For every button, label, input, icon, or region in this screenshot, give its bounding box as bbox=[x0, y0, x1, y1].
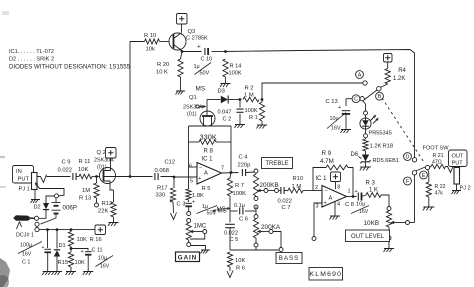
svg-text:C 11: C 11 bbox=[92, 248, 103, 254]
svg-text:C12: C12 bbox=[165, 160, 176, 166]
junction Q3 emitter bbox=[181, 50, 184, 53]
junction op2 out bbox=[352, 195, 355, 198]
svg-text:C 8: C 8 bbox=[345, 202, 354, 208]
svg-text:TREBLE: TREBLE bbox=[265, 161, 288, 167]
svg-text:0.022: 0.022 bbox=[224, 231, 238, 237]
capacitor C9 bbox=[72, 173, 74, 180]
junction D3 out bbox=[239, 98, 242, 101]
capacitor C3 bbox=[188, 200, 190, 202]
svg-text:+: + bbox=[42, 245, 45, 251]
wire pin4 ground bbox=[334, 202, 336, 216]
scan mark top left bbox=[2, 11, 9, 15]
svg-text:100K: 100K bbox=[245, 108, 258, 114]
node F bbox=[404, 177, 412, 185]
wire Q3 base bbox=[160, 41, 170, 43]
svg-text:R12: R12 bbox=[102, 201, 113, 207]
terminal arrow below R6 bbox=[229, 267, 231, 271]
svg-text:R 13: R 13 bbox=[79, 196, 91, 202]
resistor R6 bbox=[227, 252, 232, 267]
contact battery top bbox=[55, 194, 59, 198]
resistor R17 330K bbox=[173, 177, 175, 188]
wire contact F to out level wiper bbox=[414, 175, 416, 223]
svg-text:PUT: PUT bbox=[18, 177, 30, 183]
wire Q3 emitter to C10 bbox=[182, 51, 202, 53]
junction R17 bbox=[173, 176, 176, 179]
terminal bass top bbox=[254, 215, 258, 219]
power +V box R4 bbox=[384, 54, 393, 63]
svg-text:1μ: 1μ bbox=[194, 64, 200, 70]
op-amp IC1a bbox=[197, 163, 222, 185]
potentiometer 200KA bass bbox=[255, 207, 257, 215]
wire bass bottom junction bbox=[230, 249, 279, 251]
terminal above LED bbox=[364, 111, 368, 115]
jack PJ1 ring contact bbox=[36, 183, 40, 189]
contact D bbox=[412, 158, 416, 162]
svg-text:OUT: OUT bbox=[452, 154, 464, 160]
capacitor C10 bbox=[204, 48, 206, 55]
resistor R11 bbox=[77, 176, 80, 178]
ground under D1 bbox=[52, 271, 62, 273]
resistor R16 bbox=[70, 230, 72, 232]
lever DC jack bbox=[17, 222, 20, 230]
junction input riser bbox=[129, 175, 132, 178]
ground under gain pot bbox=[201, 249, 210, 251]
svg-text:R17: R17 bbox=[157, 186, 168, 192]
resistor R5 bbox=[186, 189, 191, 200]
wire R12 to ground bbox=[113, 217, 115, 222]
ground under out level bbox=[384, 248, 394, 250]
svg-text:PJ 2: PJ 2 bbox=[460, 186, 471, 192]
ground under C1 bbox=[43, 271, 53, 273]
junction R16 bbox=[70, 228, 73, 231]
svg-text:R 20: R 20 bbox=[157, 62, 169, 68]
terminal above R18 bbox=[364, 134, 368, 138]
node B bbox=[376, 92, 384, 100]
svg-text:(01): (01) bbox=[187, 112, 197, 118]
svg-text:7: 7 bbox=[221, 166, 224, 172]
svg-text:PR55345: PR55345 bbox=[369, 131, 392, 137]
wire box left to pin6 bbox=[188, 142, 190, 189]
wire R3 to out level bbox=[381, 195, 389, 207]
wire D3 to C2 R2 bbox=[228, 99, 241, 101]
power +V box op amp bbox=[331, 172, 341, 182]
wire pin6 stub bbox=[189, 166, 198, 168]
terminal bass out bbox=[279, 248, 283, 252]
resistor R15 bbox=[68, 252, 73, 267]
svg-text:E: E bbox=[422, 173, 426, 179]
junction C10 out bbox=[224, 50, 227, 53]
diode D2 bbox=[43, 209, 49, 211]
svg-text:BASS: BASS bbox=[279, 255, 300, 262]
wire R1 node to switch contact A bbox=[262, 83, 363, 100]
diode D6 zener bbox=[365, 151, 367, 155]
junction C1 bbox=[46, 228, 49, 231]
wiper out level bbox=[392, 221, 395, 223]
svg-text:RD5.6EB1: RD5.6EB1 bbox=[373, 158, 399, 164]
ground under C13 bbox=[341, 129, 351, 131]
wire R11 to Q2 gate bbox=[92, 176, 100, 178]
svg-text:220p: 220p bbox=[238, 163, 251, 169]
svg-text:1MC: 1MC bbox=[194, 224, 207, 230]
svg-text:R 22: R 22 bbox=[435, 184, 446, 190]
svg-text:R15: R15 bbox=[58, 260, 69, 266]
svg-text:R 16: R 16 bbox=[90, 237, 102, 243]
battery 006P bbox=[55, 198, 57, 202]
wire pin2 stub bbox=[313, 190, 322, 192]
svg-text:PUT: PUT bbox=[452, 161, 464, 167]
wire Q1 gate to D3 bbox=[207, 99, 221, 101]
svg-text:R 14: R 14 bbox=[230, 64, 242, 70]
ground under R1 bbox=[257, 124, 267, 126]
svg-text:D2: D2 bbox=[34, 205, 41, 211]
svg-text:10K: 10K bbox=[78, 167, 88, 173]
resistor R4 bbox=[387, 62, 389, 69]
resistor R9 bbox=[326, 165, 348, 170]
power +V box above Q3 bbox=[177, 14, 188, 25]
boxed label KLM690 bbox=[309, 268, 343, 281]
svg-text:A: A bbox=[329, 196, 333, 202]
plug DC bbox=[13, 215, 30, 221]
svg-text:0.022: 0.022 bbox=[278, 199, 293, 205]
svg-text:R 8: R 8 bbox=[204, 149, 214, 155]
terminal R13 bottom bbox=[96, 198, 98, 203]
svg-text:−: − bbox=[199, 166, 202, 172]
capacitor C1 bbox=[47, 230, 49, 248]
svg-text:R 9: R 9 bbox=[322, 150, 332, 157]
jack PJ2 tip contact bbox=[446, 165, 454, 173]
wire pin5 input bbox=[174, 176, 197, 178]
svg-text:0.047: 0.047 bbox=[218, 110, 232, 116]
resistor R3 bbox=[362, 195, 367, 197]
svg-text:47k: 47k bbox=[435, 191, 444, 197]
contact DC out bbox=[35, 228, 39, 232]
wire pin3 stub bbox=[314, 203, 322, 237]
junction R2 R1 bbox=[261, 98, 264, 101]
potentiometer 10KB out level bbox=[388, 210, 390, 213]
svg-text:16V: 16V bbox=[22, 252, 32, 258]
svg-text:D3: D3 bbox=[218, 89, 225, 95]
svg-text:IC1. . . . . . TL-072: IC1. . . . . . TL-072 bbox=[9, 49, 54, 55]
wire box right to output bbox=[230, 142, 232, 172]
contact E pivot bbox=[425, 165, 429, 169]
svg-text:5: 5 bbox=[190, 179, 193, 185]
terminal arrow below R17 bbox=[172, 202, 175, 213]
svg-text:OUT LEVEL: OUT LEVEL bbox=[351, 234, 385, 240]
svg-text:3: 3 bbox=[315, 204, 318, 210]
LED PR55345 bbox=[360, 118, 371, 129]
svg-text:R 7: R 7 bbox=[235, 183, 244, 189]
diode D1 bbox=[56, 230, 58, 249]
wire C13 to ground bbox=[345, 114, 347, 129]
terminal 1MC bottom bbox=[187, 243, 191, 247]
terminal bass bottom bbox=[254, 243, 258, 247]
svg-text:C 13: C 13 bbox=[326, 99, 338, 105]
resistor R14 bbox=[223, 59, 228, 77]
terminal treble bottom bbox=[254, 197, 258, 201]
resistor R10 1M bbox=[284, 190, 288, 192]
potentiometer 1MC gain bbox=[188, 222, 190, 225]
svg-text:B: B bbox=[378, 94, 382, 100]
wire C12 to pin5 bbox=[161, 176, 175, 179]
svg-text:2SK30A: 2SK30A bbox=[183, 105, 203, 111]
ground under PJ1 bbox=[31, 199, 40, 201]
svg-text:1.8K: 1.8K bbox=[192, 193, 204, 199]
svg-text:6: 6 bbox=[189, 164, 192, 170]
boxed label OUT PUT bbox=[449, 150, 468, 167]
wire contact C to LED bbox=[363, 101, 366, 112]
capacitor C8 bbox=[357, 193, 359, 201]
svg-text:4.7M: 4.7M bbox=[320, 158, 334, 165]
wire tip contact to D2 bbox=[39, 210, 46, 218]
svg-text:R 6: R 6 bbox=[236, 266, 245, 272]
svg-text:R10: R10 bbox=[293, 176, 304, 182]
capacitor C12 bbox=[154, 173, 156, 180]
contact DC tip bbox=[34, 216, 38, 220]
svg-text:MS: MS bbox=[196, 86, 206, 93]
svg-text:−: − bbox=[325, 189, 328, 195]
diode D3 bbox=[221, 96, 228, 103]
resistor R12 bbox=[113, 190, 115, 202]
ground under R22 bbox=[423, 206, 434, 208]
node E bbox=[420, 171, 428, 179]
svg-text:IN: IN bbox=[16, 169, 22, 175]
wiper 1MC bbox=[191, 230, 194, 232]
svg-text:C 9: C 9 bbox=[62, 160, 71, 166]
boxed label GAIN bbox=[176, 252, 200, 262]
wire Q2 out to C12 bbox=[130, 176, 153, 178]
svg-text:C 2: C 2 bbox=[223, 117, 232, 123]
svg-text:C 10: C 10 bbox=[201, 57, 213, 63]
svg-text:50V: 50V bbox=[207, 211, 217, 217]
svg-text:R 3: R 3 bbox=[366, 181, 376, 187]
contact F bbox=[412, 171, 416, 175]
svg-text:D2 . . . . . . SRIK 2: D2 . . . . . . SRIK 2 bbox=[9, 57, 54, 63]
wire PJ1 sleeve bbox=[34, 190, 36, 200]
jack PJ1 bbox=[32, 173, 38, 190]
svg-text:1M: 1M bbox=[82, 188, 90, 194]
switch MS contact upper bbox=[187, 212, 191, 216]
ground under R20 bbox=[176, 90, 185, 92]
terminal treble top bbox=[254, 169, 258, 173]
svg-text:R18: R18 bbox=[383, 144, 394, 150]
svg-text:IC 1: IC 1 bbox=[316, 176, 328, 182]
svg-text:C 5: C 5 bbox=[230, 237, 239, 243]
svg-text:R 10: R 10 bbox=[144, 33, 156, 39]
svg-text:R 5: R 5 bbox=[202, 186, 211, 192]
junction R15 C11 bbox=[70, 247, 73, 250]
capacitor C13 bbox=[342, 110, 350, 112]
svg-text:22K: 22K bbox=[98, 209, 108, 215]
svg-text:1.2K: 1.2K bbox=[370, 144, 382, 150]
svg-text:A: A bbox=[358, 72, 362, 78]
resistor R10 base bbox=[145, 39, 160, 44]
terminal out level bottom bbox=[387, 236, 391, 240]
svg-text:PJ 1: PJ 1 bbox=[19, 187, 30, 193]
wiper treble bbox=[258, 189, 261, 191]
resistor R22 bbox=[428, 170, 429, 182]
node A bbox=[356, 71, 364, 79]
wire power rail bbox=[39, 229, 95, 231]
resistor R20 bbox=[178, 59, 183, 77]
wire R7 to C6 node bbox=[229, 196, 231, 211]
capacitor C2 bbox=[239, 100, 241, 108]
svg-text:10K: 10K bbox=[77, 237, 87, 243]
svg-text:10K: 10K bbox=[75, 260, 85, 266]
svg-text:330K: 330K bbox=[200, 133, 217, 142]
svg-text:1 M: 1 M bbox=[244, 93, 254, 99]
switch mechanical link dashed bbox=[382, 98, 425, 163]
wiper bass bbox=[258, 230, 261, 232]
wire R20 top bbox=[181, 52, 183, 60]
ground under R12 bbox=[109, 222, 119, 224]
switch lever top bbox=[364, 90, 377, 100]
wire R10 to input node riser bbox=[130, 42, 145, 177]
svg-text:10k: 10k bbox=[146, 47, 155, 53]
ground under R14 bbox=[221, 83, 231, 85]
contact B bbox=[377, 87, 381, 91]
ground under pin4 bbox=[330, 215, 340, 217]
wire dry signal line to footswitch bbox=[226, 50, 415, 158]
svg-text:1 K: 1 K bbox=[369, 188, 378, 194]
resistor R18 bbox=[365, 138, 367, 139]
svg-text:0.022: 0.022 bbox=[58, 168, 73, 174]
svg-text:+: + bbox=[338, 105, 341, 111]
resistor R13 bbox=[96, 177, 98, 184]
wire pin8 bbox=[335, 182, 337, 190]
svg-text:10K: 10K bbox=[235, 258, 245, 264]
svg-text:+: + bbox=[324, 201, 327, 207]
svg-text:16V: 16V bbox=[359, 209, 369, 215]
wire C13 to contact C bbox=[346, 98, 360, 100]
svg-text:C 4: C 4 bbox=[239, 155, 249, 161]
svg-text:DIODES WITHOUT DESIGNATION: 1S: DIODES WITHOUT DESIGNATION: 1S1555 bbox=[9, 64, 131, 71]
svg-text:MS: MS bbox=[217, 206, 226, 213]
resistor R7 bbox=[230, 173, 231, 179]
ground under C11 bbox=[83, 271, 93, 273]
transistor Q2 2SK30A bbox=[100, 168, 116, 184]
svg-text:50V: 50V bbox=[200, 71, 210, 77]
contact DC battery bbox=[35, 222, 39, 226]
resistor R8 330K feedback bbox=[189, 141, 200, 143]
svg-text:1: 1 bbox=[347, 189, 350, 195]
wire R20 to ground bbox=[180, 77, 182, 91]
svg-text:R 1: R 1 bbox=[249, 115, 258, 121]
svg-text:D6: D6 bbox=[351, 152, 359, 158]
svg-text:4: 4 bbox=[337, 202, 340, 208]
svg-text:+: + bbox=[197, 44, 201, 51]
svg-text:330: 330 bbox=[156, 193, 166, 199]
svg-text:0.1μ: 0.1μ bbox=[234, 203, 245, 209]
svg-text:100K: 100K bbox=[233, 191, 247, 197]
svg-text:16V: 16V bbox=[331, 126, 341, 132]
svg-text:100K: 100K bbox=[229, 71, 242, 77]
ground under R15 bbox=[66, 271, 76, 273]
label MS at C3 bbox=[213, 209, 217, 212]
svg-text:IC 1: IC 1 bbox=[202, 157, 214, 163]
contact A bbox=[363, 81, 367, 85]
capacitor C7 bbox=[280, 187, 282, 194]
scan mark left edge bbox=[0, 156, 5, 158]
svg-text:D: D bbox=[406, 154, 410, 160]
ground under D6 bbox=[360, 166, 371, 168]
capacitor C11 bbox=[71, 249, 88, 251]
resistor R21 bbox=[430, 166, 431, 169]
svg-text:C 3: C 3 bbox=[177, 202, 186, 208]
LED arrows bbox=[371, 116, 376, 121]
svg-text:+: + bbox=[192, 200, 195, 206]
terminal pin3 open bbox=[312, 237, 316, 241]
capacitor C5 bbox=[229, 211, 231, 223]
junction D1 bbox=[56, 228, 59, 231]
svg-text:A: A bbox=[204, 170, 208, 176]
resistor R1 bbox=[261, 100, 263, 103]
op-amp IC1b bbox=[322, 186, 347, 208]
node D bbox=[404, 153, 412, 161]
jack PJ2 bbox=[454, 168, 460, 185]
wire op2 output bbox=[347, 196, 357, 198]
ground under C2 bbox=[235, 124, 245, 126]
svg-text:Q3: Q3 bbox=[188, 29, 196, 35]
svg-text:R 11: R 11 bbox=[79, 159, 91, 165]
terminal out level top bbox=[387, 207, 391, 211]
junction R13 bbox=[95, 175, 98, 178]
transistor Q3 bbox=[169, 33, 186, 50]
wire C10 to dry line bbox=[212, 51, 226, 53]
terminal mid tone chain bbox=[254, 205, 258, 209]
jack PJ1 tip contact bbox=[37, 175, 47, 183]
power +V box rail bbox=[95, 225, 106, 235]
svg-text:C 6: C 6 bbox=[239, 217, 248, 223]
boxed label OUT LEVEL bbox=[346, 230, 390, 242]
wire Q3 collector to +V bbox=[181, 24, 183, 33]
svg-text:200KB: 200KB bbox=[260, 182, 279, 189]
power +V box above Q2 bbox=[106, 148, 117, 159]
wire op2 feedback bbox=[313, 168, 326, 191]
svg-text:10 K: 10 K bbox=[156, 70, 168, 76]
svg-text:R4: R4 bbox=[398, 68, 406, 74]
svg-text:16V: 16V bbox=[100, 264, 110, 270]
svg-text:006P: 006P bbox=[63, 205, 77, 212]
switch lever bottom bbox=[416, 167, 427, 172]
resistor R2 bbox=[243, 97, 259, 102]
node C bbox=[352, 95, 360, 103]
ground under PJ2 bbox=[456, 184, 458, 190]
svg-text:C: C bbox=[354, 97, 358, 103]
svg-text:1.2K: 1.2K bbox=[393, 76, 405, 82]
svg-text:C 1: C 1 bbox=[22, 260, 30, 266]
switch MS contact lower bbox=[187, 219, 191, 223]
svg-text:0.068: 0.068 bbox=[155, 168, 170, 174]
svg-text:+: + bbox=[355, 189, 358, 195]
svg-text:10μ: 10μ bbox=[98, 256, 107, 262]
svg-text:+: + bbox=[198, 176, 201, 182]
svg-text:Q 2: Q 2 bbox=[97, 150, 106, 156]
svg-text:FOOT SW: FOOT SW bbox=[423, 146, 450, 152]
potentiometer 200KB treble bbox=[255, 173, 257, 174]
wire C4 to treble bbox=[246, 171, 254, 174]
contact C bbox=[360, 97, 364, 101]
svg-text:DCJ# 1: DCJ# 1 bbox=[16, 233, 34, 239]
svg-text:10KB: 10KB bbox=[364, 220, 380, 227]
svg-text:(01): (01) bbox=[97, 165, 107, 171]
wire op1 output bbox=[222, 172, 239, 175]
svg-text:D1: D1 bbox=[59, 243, 66, 249]
wire out level to ground bbox=[388, 240, 390, 248]
wire R14 to ground bbox=[225, 77, 227, 83]
scan smudge bottom left bbox=[0, 258, 10, 287]
wire ring contact to battery switch bbox=[39, 189, 64, 196]
svg-text:KLM690: KLM690 bbox=[310, 271, 343, 278]
